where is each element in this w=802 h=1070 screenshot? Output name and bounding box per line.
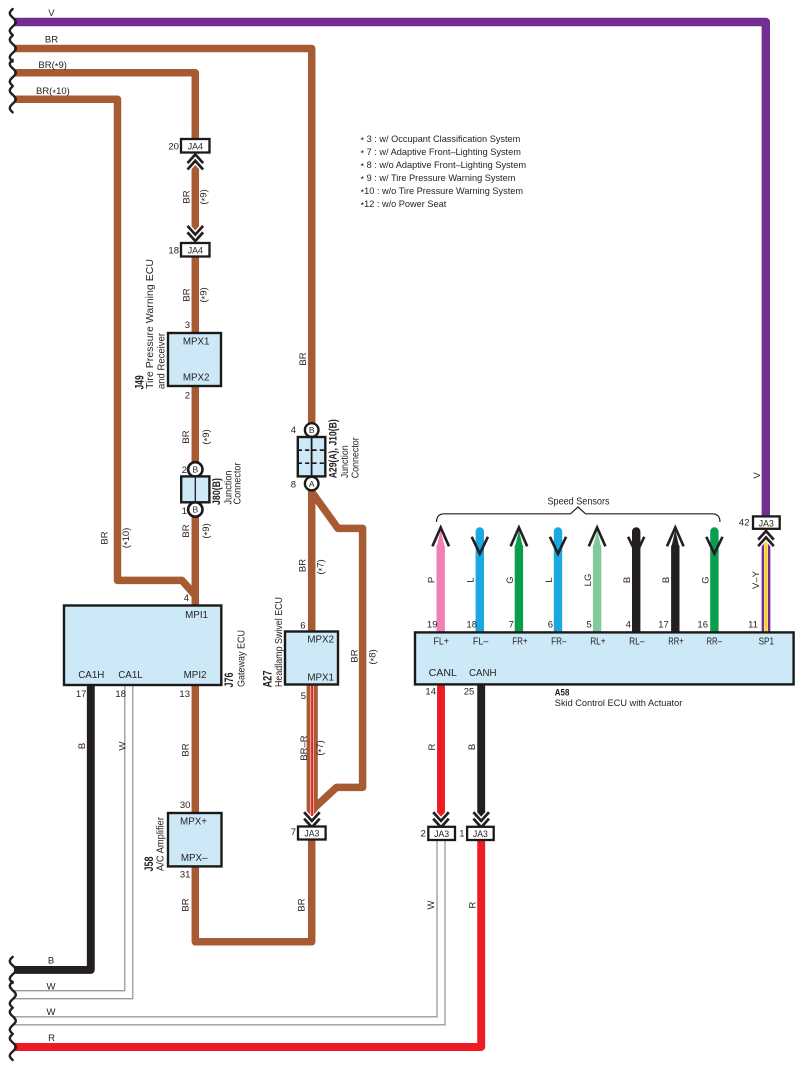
svg-text:5: 5 xyxy=(301,691,306,702)
svg-text:J76: J76 xyxy=(222,672,236,687)
svg-text:RR+: RR+ xyxy=(668,637,684,648)
svg-text:19: 19 xyxy=(427,620,438,631)
svg-text:BR–R: BR–R xyxy=(299,735,310,760)
svg-text:FR–: FR– xyxy=(551,637,567,648)
svg-text:MPX–: MPX– xyxy=(181,853,208,864)
ECU box A27 Headlamp Swivel ECU xyxy=(285,632,338,685)
svg-text:BR: BR xyxy=(296,898,307,911)
connector arrow above JA3 pin 7 (points down) xyxy=(304,812,320,821)
svg-text:1: 1 xyxy=(459,829,464,840)
connector box JA3 pin 1 xyxy=(467,827,494,840)
cowl break symbol for BR(*10) wire (top left) xyxy=(10,86,16,112)
svg-text:J80(B): J80(B) xyxy=(211,478,223,505)
svg-text:CANL: CANL xyxy=(429,668,458,679)
svg-text:*​10 : w/o Tire Pressure Warni: *​10 : w/o Tire Pressure Warning System xyxy=(361,186,524,198)
svg-text:6: 6 xyxy=(548,620,553,631)
junction connector J80(B) lower terminal circle B pin 1 xyxy=(188,502,202,516)
svg-text:B: B xyxy=(48,956,54,967)
svg-text:BR: BR xyxy=(297,559,308,572)
wire P to A58 (FL+ speed sensor) xyxy=(437,546,445,637)
svg-text:G: G xyxy=(505,576,516,583)
svg-text:6: 6 xyxy=(300,621,305,632)
svg-text:2: 2 xyxy=(185,391,190,402)
svg-text:W: W xyxy=(426,900,437,909)
svg-text:*​12 : w/o Power Seat: *​12 : w/o Power Seat xyxy=(361,199,447,211)
svg-text:R: R xyxy=(467,901,478,908)
svg-text:42: 42 xyxy=(739,518,750,529)
svg-text:B: B xyxy=(192,465,198,475)
svg-text:B: B xyxy=(622,577,633,583)
wire W from J76 CA1L pin 18 to left cowl xyxy=(13,683,129,995)
wire L to A58 (FR- speed sensor) xyxy=(554,532,562,637)
svg-text:MPI1: MPI1 xyxy=(185,610,208,621)
svg-text:(*​9): (*​9) xyxy=(201,523,214,538)
svg-text:20: 20 xyxy=(168,142,179,153)
wire BR from J76 MPI2 pin 13 to J58 MPX+ pin 30 xyxy=(192,683,200,816)
svg-text:17: 17 xyxy=(76,689,87,700)
ECU box J58 A/C Amplifier xyxy=(168,813,222,866)
svg-text:MPX2: MPX2 xyxy=(183,373,210,384)
svg-text:4: 4 xyxy=(291,425,296,436)
svg-text:1: 1 xyxy=(182,506,187,517)
svg-text:JA3: JA3 xyxy=(759,518,774,529)
svg-text:Tire Pressure Warning ECU: Tire Pressure Warning ECU xyxy=(145,259,156,389)
connector arrow above JA4 pin 18 (points down) xyxy=(188,226,204,235)
speed sensor pin numbers of A58 xyxy=(427,620,758,631)
svg-text:W: W xyxy=(117,741,128,750)
svg-text:B: B xyxy=(77,743,88,749)
ECU box J76 Gateway ECU xyxy=(64,606,221,686)
speed sensor wire color labels xyxy=(427,574,712,587)
svg-text:5: 5 xyxy=(587,620,592,631)
svg-text:JA3: JA3 xyxy=(473,829,488,840)
connector box JA3 pin 7 xyxy=(298,827,326,840)
wire W from JA3 pin 2 to left cowl xyxy=(13,838,441,1021)
svg-text:Gateway ECU: Gateway ECU xyxy=(237,630,248,687)
svg-text:L: L xyxy=(544,577,555,582)
svg-text:4: 4 xyxy=(626,620,631,631)
svg-text:SP1: SP1 xyxy=(759,637,774,648)
wire BR main trunk from left cowl down to A29 junction and A27 xyxy=(14,49,312,637)
connector box JA3 pin 2 xyxy=(428,827,455,840)
svg-text:(*​10): (*​10) xyxy=(121,528,134,549)
svg-text:31: 31 xyxy=(180,870,191,881)
svg-text:FL+: FL+ xyxy=(434,637,450,648)
svg-text:7: 7 xyxy=(509,620,514,631)
svg-text:BR(*​10): BR(*​10) xyxy=(36,86,70,99)
wire V (violet) from left cowl to JA3 pin 42 xyxy=(14,22,766,520)
svg-text:G: G xyxy=(700,576,711,583)
wire R from A58 CANL pin 14 to JA3 pin 2 xyxy=(437,683,445,818)
svg-text:14: 14 xyxy=(425,686,436,697)
svg-text:BR: BR xyxy=(181,430,192,443)
wire BR(*9) from left cowl down through JA4/J49/J80 to J76 MPI1 xyxy=(14,73,195,608)
svg-text:18: 18 xyxy=(466,620,477,631)
wire BR(*8) branch from A29 pin 8 down right leg to JA3 pin 7 xyxy=(312,492,363,810)
cowl break symbol for W wire (bottom left) xyxy=(10,1008,16,1034)
junction connector J80(B) upper terminal circle B pin 2 xyxy=(188,462,202,476)
cowl break symbol for BR wire (top left) xyxy=(10,36,16,62)
svg-text:18: 18 xyxy=(168,246,179,257)
svg-text:11: 11 xyxy=(748,620,758,631)
svg-text:L: L xyxy=(466,577,477,582)
svg-text:2: 2 xyxy=(421,829,426,840)
arrowhead on FL- speed sensor wire xyxy=(472,537,488,554)
svg-text:J58: J58 xyxy=(142,856,156,871)
svg-text:Speed Sensors: Speed Sensors xyxy=(548,497,610,508)
cowl break symbol for W wire (bottom left) xyxy=(10,982,16,1008)
arrowhead on RR- speed sensor wire xyxy=(706,537,722,554)
wire BR loop from J58 MPX- pin 31 to JA3 pin 7 xyxy=(195,838,311,942)
wire G to A58 (RR- speed sensor) xyxy=(710,532,718,637)
junction connector J80(B) body xyxy=(181,476,209,502)
svg-text:B: B xyxy=(192,505,198,515)
svg-text:*​ 9 : w/ Tire Pressure Warnin: *​ 9 : w/ Tire Pressure Warning System xyxy=(361,173,516,185)
svg-text:JA4: JA4 xyxy=(188,141,203,152)
svg-text:A29(A), J10(B): A29(A), J10(B) xyxy=(328,419,340,478)
svg-text:MPX+: MPX+ xyxy=(180,817,207,828)
arrowhead on RR+ speed sensor wire xyxy=(667,528,684,547)
svg-text:B: B xyxy=(661,577,672,583)
svg-text:JA3: JA3 xyxy=(304,829,319,840)
ECU box J49 Tire Pressure Warning ECU and Receiver xyxy=(168,333,221,386)
svg-text:8: 8 xyxy=(291,480,296,491)
svg-text:BR(*​9): BR(*​9) xyxy=(38,60,67,73)
svg-text:RL–: RL– xyxy=(629,637,645,648)
wire V-Y from JA3 pin 42 to A58 SP1 pin 11 xyxy=(762,534,771,636)
svg-text:BR: BR xyxy=(99,531,110,544)
svg-text:7: 7 xyxy=(291,827,296,838)
svg-text:MPX1: MPX1 xyxy=(183,337,210,348)
svg-text:W: W xyxy=(47,981,56,992)
wire BR(*10) from left cowl joining BR(*9) above J76 xyxy=(14,99,195,595)
svg-text:B: B xyxy=(309,425,315,435)
svg-text:CANH: CANH xyxy=(469,668,497,679)
svg-text:(*​9): (*​9) xyxy=(198,189,211,204)
svg-text:(*​9): (*​9) xyxy=(201,429,214,444)
svg-text:Connector: Connector xyxy=(351,437,362,478)
brace over speed sensor wires xyxy=(437,507,721,522)
svg-text:BR: BR xyxy=(45,34,58,45)
pin labels top row of A58 xyxy=(434,637,775,648)
svg-text:V: V xyxy=(752,472,763,479)
svg-text:BR: BR xyxy=(298,352,309,365)
svg-text:30: 30 xyxy=(180,800,191,811)
svg-text:BR: BR xyxy=(349,649,360,662)
arrowhead on RL- speed sensor wire xyxy=(628,537,644,554)
svg-text:16: 16 xyxy=(697,620,708,631)
cowl break symbol for BR(*9) wire (top left) xyxy=(10,60,16,86)
wire BR-R (*7) from A27 MPX1 pin 5 down to JA3 pin 7 xyxy=(307,682,318,816)
svg-text:(*​9): (*​9) xyxy=(198,287,211,302)
svg-text:BR: BR xyxy=(180,898,191,911)
cowl break symbol for V wire (top left) xyxy=(10,9,16,35)
wire B from J76 CA1H pin 17 to left cowl xyxy=(14,683,91,970)
footnote legend for option codes xyxy=(361,134,527,211)
svg-text:B: B xyxy=(467,744,478,750)
svg-text:FR+: FR+ xyxy=(512,637,528,648)
junction connector A29(A),J10(B) lower terminal circle A pin 8 xyxy=(305,477,319,491)
svg-text:FL–: FL– xyxy=(473,637,489,648)
connector arrow above JA4 pin 20 junction (points up) xyxy=(188,154,204,163)
svg-text:25: 25 xyxy=(464,686,475,697)
connector box JA4 pin 20 xyxy=(181,139,210,153)
svg-text:Headlamp Swivel ECU: Headlamp Swivel ECU xyxy=(274,597,285,687)
svg-text:BR: BR xyxy=(180,743,191,756)
junction connector A29(A),J10(B) upper terminal circle B pin 4 xyxy=(305,423,319,437)
svg-text:Skid Control ECU with Actuator: Skid Control ECU with Actuator xyxy=(555,698,683,709)
svg-text:BR: BR xyxy=(181,190,192,203)
arrowhead on FL+ speed sensor wire xyxy=(432,528,449,547)
svg-text:Connector: Connector xyxy=(233,462,244,504)
svg-text:(*​7): (*​7) xyxy=(315,559,328,574)
svg-text:17: 17 xyxy=(658,620,669,631)
svg-text:R: R xyxy=(48,1033,55,1044)
svg-text:A/C Amplifier: A/C Amplifier xyxy=(156,816,167,871)
wire B to A58 (RL- speed sensor) xyxy=(632,532,640,637)
svg-text:3: 3 xyxy=(185,320,190,331)
arrowhead on FR- speed sensor wire xyxy=(550,537,566,554)
svg-text:BR: BR xyxy=(181,288,192,301)
connector arrow above JA3 pin 1 (points down) xyxy=(473,812,489,821)
cowl break symbol for R wire (bottom left) xyxy=(10,1034,16,1060)
svg-text:P: P xyxy=(427,577,438,583)
arrowhead on RL+ speed sensor wire xyxy=(589,528,606,547)
svg-text:CA1H: CA1H xyxy=(78,670,104,681)
svg-text:V: V xyxy=(48,8,55,19)
cowl break symbol for B wire (bottom left) xyxy=(10,957,16,983)
svg-text:*​ 3 : w/ Occupant Classificat: *​ 3 : w/ Occupant Classification System xyxy=(361,134,521,146)
svg-text:RL+: RL+ xyxy=(590,637,606,648)
connector arrow above JA3 pin 2 (points down) xyxy=(433,812,449,821)
svg-text:JA3: JA3 xyxy=(434,829,449,840)
connector box JA3 pin 42 xyxy=(753,516,780,528)
wire B to A58 (RR+ speed sensor) xyxy=(671,546,679,637)
connector box JA4 pin 18 xyxy=(181,243,210,257)
svg-text:(*​8): (*​8) xyxy=(367,649,380,664)
svg-text:CA1L: CA1L xyxy=(118,670,143,681)
svg-text:*​ 7 : w/ Adaptive Front–Light: *​ 7 : w/ Adaptive Front–Lighting System xyxy=(361,147,522,159)
svg-text:LG: LG xyxy=(583,574,594,587)
svg-text:BR: BR xyxy=(181,524,192,537)
svg-text:A27: A27 xyxy=(261,670,275,687)
wire L to A58 (FL- speed sensor) xyxy=(476,532,484,637)
connector arrow below JA3 pin 42 (points up) xyxy=(758,531,774,540)
wire B from A58 CANH pin 25 to JA3 pin 1 xyxy=(477,683,485,818)
arrowhead on FR+ speed sensor wire xyxy=(511,528,528,547)
svg-text:MPX1: MPX1 xyxy=(307,673,334,684)
svg-text:R: R xyxy=(427,743,438,750)
wire R from JA3 pin 1 to left cowl xyxy=(14,838,481,1047)
svg-text:2: 2 xyxy=(182,465,187,476)
svg-text:13: 13 xyxy=(179,689,190,700)
wire LG to A58 (RL+ speed sensor) xyxy=(593,546,601,637)
svg-text:MPI2: MPI2 xyxy=(184,670,207,681)
svg-text:JA4: JA4 xyxy=(188,245,203,256)
svg-text:and Receiver: and Receiver xyxy=(157,332,168,389)
svg-text:V–Y: V–Y xyxy=(751,570,762,589)
svg-text:W: W xyxy=(47,1007,56,1018)
svg-text:4: 4 xyxy=(184,593,189,604)
svg-text:(*​7): (*​7) xyxy=(315,740,328,755)
svg-text:MPX2: MPX2 xyxy=(307,635,334,646)
svg-text:A: A xyxy=(309,479,315,489)
junction connector A29(A),J10(B) body grid xyxy=(298,437,326,476)
svg-text:18: 18 xyxy=(115,689,126,700)
wire G to A58 (FR+ speed sensor) xyxy=(515,546,523,637)
svg-text:*​ 8 : w/o Adaptive Front–Ligh: *​ 8 : w/o Adaptive Front–Lighting Syste… xyxy=(361,160,527,172)
svg-text:RR–: RR– xyxy=(707,637,723,648)
ECU box A58 Skid Control ECU with Actuator xyxy=(415,632,794,684)
